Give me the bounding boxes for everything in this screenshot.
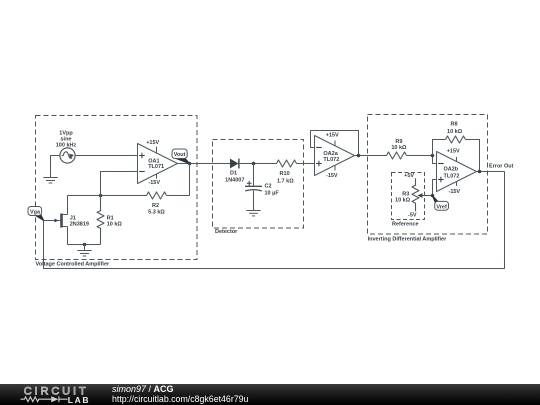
svg-text:R8: R8 xyxy=(450,122,457,128)
wire wiper to OA2b + input xyxy=(433,180,437,196)
svg-text:Detector: Detector xyxy=(215,229,238,235)
wire source left to ground xyxy=(51,156,60,178)
svg-text:C2: C2 xyxy=(265,184,272,190)
svg-text:+5V: +5V xyxy=(404,173,414,179)
power +15V (OA1) xyxy=(156,147,158,154)
wire Vga to gate xyxy=(44,220,62,222)
dashed box Inverting Differential Amplifier xyxy=(368,115,488,235)
junction (source gnd) xyxy=(83,243,87,247)
wire R2 to drain node xyxy=(101,195,147,197)
ground (source) xyxy=(43,178,57,184)
svg-text:-5V: -5V xyxy=(408,213,417,219)
node flag Vref xyxy=(432,196,448,211)
wire Vga feedback return xyxy=(44,172,505,269)
svg-text:sine: sine xyxy=(60,137,71,143)
svg-text:2N3819: 2N3819 xyxy=(70,221,89,227)
svg-text:Error Out: Error Out xyxy=(489,163,514,169)
wire OA1 output to detector xyxy=(178,163,231,165)
logo CIRCUIT LAB xyxy=(0,384,100,405)
svg-text:LAB: LAB xyxy=(68,395,90,405)
wire drain node to JFET drain xyxy=(68,196,101,215)
svg-text:TL072: TL072 xyxy=(444,173,460,179)
op-amp OA2b xyxy=(437,152,477,192)
power +15V (OA2a) xyxy=(334,141,336,146)
svg-text:+15V: +15V xyxy=(447,149,460,155)
junction (OA2b out) xyxy=(478,170,482,174)
ground (JFET source) xyxy=(77,245,91,257)
wire OA2a feedback loop xyxy=(311,131,359,156)
svg-text:10 kΩ: 10 kΩ xyxy=(391,145,407,151)
wire R9 to OA2b - input xyxy=(407,156,437,164)
dashed box Reference xyxy=(392,173,425,220)
ground (C2) xyxy=(246,211,260,216)
svg-text:+15V: +15V xyxy=(146,140,159,146)
svg-text:-15V: -15V xyxy=(326,173,338,179)
junction (OA2a out) xyxy=(357,154,361,158)
wire source to op-amp + input xyxy=(75,155,137,157)
svg-text:Vout: Vout xyxy=(174,152,186,158)
svg-text:TL072: TL072 xyxy=(323,157,339,163)
svg-text:1N4007: 1N4007 xyxy=(225,178,244,184)
junction (drain node) xyxy=(99,194,103,198)
resistor R8 xyxy=(446,136,466,143)
capacitor C2 xyxy=(245,164,262,211)
dashed box Detector xyxy=(213,140,304,229)
wire R8 to OA2b out xyxy=(466,140,480,172)
resistor R10 xyxy=(277,160,297,167)
svg-text:R2: R2 xyxy=(152,203,159,209)
svg-text:Vga: Vga xyxy=(30,210,41,216)
svg-text:R10: R10 xyxy=(280,171,290,177)
gate arrow xyxy=(55,219,59,223)
junction (detector node) xyxy=(252,162,256,166)
power -15V (OA1) xyxy=(156,174,158,179)
svg-text:10 µF: 10 µF xyxy=(265,190,280,196)
power -15V (OA2a) xyxy=(334,166,336,171)
node flag Vout xyxy=(172,149,190,164)
junction (output/feedback) xyxy=(188,162,192,166)
svg-text:10 kΩ: 10 kΩ xyxy=(447,129,463,135)
power +15V (OA2b) xyxy=(456,157,458,162)
wire diode to R10 xyxy=(239,163,277,165)
node flag Vga xyxy=(28,207,44,221)
wire OA2a out to R9 xyxy=(355,155,387,157)
diode D1 xyxy=(230,159,239,169)
resistor R9 xyxy=(387,152,407,159)
op-amp OA2a xyxy=(315,136,355,176)
svg-text:-15V: -15V xyxy=(448,189,460,195)
dashed box Voltage Controlled Amplifier xyxy=(36,116,198,260)
svg-text:Voltage Controlled Amplifier: Voltage Controlled Amplifier xyxy=(36,262,111,268)
junction (OA2b - node) xyxy=(431,154,435,158)
svg-text:Inverting Differential Amplifi: Inverting Differential Amplifier xyxy=(368,237,448,243)
source V1 xyxy=(60,148,75,163)
svg-text:5.3 kΩ: 5.3 kΩ xyxy=(148,209,165,215)
svg-text:Reference: Reference xyxy=(392,221,419,227)
power -15V (OA2b) xyxy=(456,182,458,187)
potentiometer R3 xyxy=(412,178,433,211)
transistor J1 xyxy=(62,214,68,228)
svg-text:OA2b: OA2b xyxy=(444,166,459,172)
wire OA2b out Error Out xyxy=(477,171,505,173)
wire JFET source down xyxy=(68,227,101,245)
svg-text:D1: D1 xyxy=(230,171,237,177)
wire feedback down xyxy=(167,164,190,196)
wire - input to drain node xyxy=(101,172,138,196)
svg-text:R1: R1 xyxy=(107,216,114,222)
junction (Vref node) xyxy=(431,194,435,198)
svg-text:TL071: TL071 xyxy=(148,164,164,170)
svg-text:+15V: +15V xyxy=(326,132,339,138)
svg-text:10 kΩ: 10 kΩ xyxy=(107,222,123,228)
svg-text:1.7 kΩ: 1.7 kΩ xyxy=(277,178,294,184)
svg-text:-15V: -15V xyxy=(148,180,160,186)
svg-text:Vref: Vref xyxy=(436,204,447,210)
op-amp OA1 xyxy=(138,144,178,184)
wire R8 feedback xyxy=(433,140,446,156)
svg-text:10 kΩ: 10 kΩ xyxy=(395,197,411,203)
footer bar xyxy=(0,384,540,405)
resistor R1 xyxy=(97,196,104,245)
wire R10 to OA2a xyxy=(297,163,315,165)
resistor R2 xyxy=(147,192,167,199)
